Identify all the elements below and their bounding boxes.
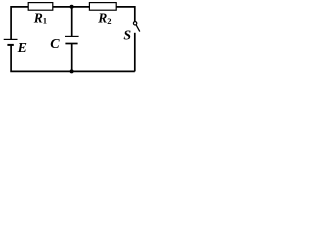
wire top-left: left corner to R1 [11, 7, 29, 40]
svg-text:R2: R2 [97, 11, 111, 26]
svg-text:R1: R1 [33, 11, 47, 26]
resistor R2 [89, 3, 116, 11]
svg-text:S: S [123, 28, 131, 43]
wire: R1 to R2 through top node [52, 6, 89, 8]
svg-text:C: C [50, 37, 60, 52]
svg-text:E: E [17, 41, 27, 56]
wire: battery down to bottom-left corner and bottom wire [11, 45, 135, 72]
capacitor C [65, 36, 79, 43]
node bottom junction [70, 69, 74, 73]
battery E [4, 39, 18, 45]
wire: switch to bottom-right corner [134, 33, 136, 72]
wire: capacitor down to bottom node [71, 44, 73, 72]
switch S [133, 22, 139, 32]
node top junction [70, 5, 74, 9]
resistor R1 [28, 3, 53, 11]
wire: R2 to top-right corner and down to switch [116, 7, 135, 22]
wire: top node down to capacitor [71, 7, 73, 37]
